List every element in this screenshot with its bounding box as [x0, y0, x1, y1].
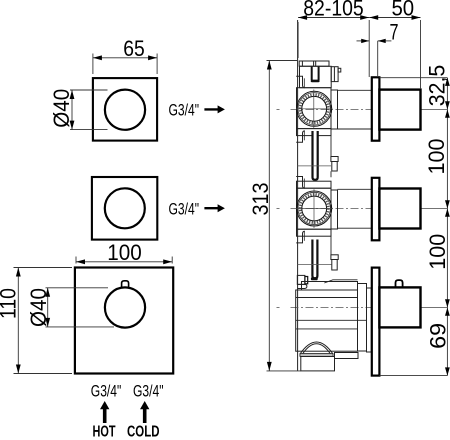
dim Ø40 extension line top: [70, 89, 108, 91]
right fitting below unit2: [331, 255, 338, 260]
mid fitting centerline: [298, 165, 331, 167]
right vertical dimension line: [446, 78, 448, 376]
sleeve lines unit2 to plate: [338, 188, 372, 190]
right dim extension plate3 bottom: [379, 375, 447, 377]
big wall plate square S3 (bottom-left front view): [75, 268, 173, 374]
right fitting mid: [331, 157, 338, 162]
dimension 110 extension top: [14, 267, 73, 269]
dimension 100 extension lines: [75, 257, 77, 264]
svg-text:32,5: 32,5: [424, 65, 449, 107]
svg-text:69: 69: [426, 323, 450, 349]
thermostat top bar bevel: [324, 280, 357, 283]
thermostat bottom outlet box: [301, 357, 335, 371]
knob barrel B3: [379, 287, 420, 327]
dim 313 extension bottom: [267, 370, 302, 372]
dimension 65 extension line left: [92, 54, 94, 75]
svg-text:100: 100: [425, 234, 450, 270]
escutcheon plate P2: [372, 178, 380, 241]
dimension 110 extension bottom: [14, 373, 73, 375]
wall line: [297, 20, 299, 371]
svg-text:100: 100: [424, 139, 449, 175]
right dim extension plate1 top: [379, 77, 447, 79]
gasket band: [300, 354, 333, 357]
svg-text:Ø40: Ø40: [26, 288, 51, 327]
bracket line above mid fitting: [330, 136, 332, 157]
dim 313 extension top: [267, 60, 298, 62]
dim 7 extension right: [377, 41, 379, 77]
centerline valve 1: [291, 109, 421, 111]
svg-text:G3/4": G3/4": [133, 383, 164, 401]
svg-text:110: 110: [0, 288, 20, 319]
svg-text:313: 313: [248, 183, 273, 216]
dim 82-105 extension left (wall): [297, 22, 299, 58]
centerline valve 3: [291, 307, 421, 309]
svg-text:HOT: HOT: [93, 424, 116, 440]
thermostat internal top line: [296, 297, 358, 299]
dimension line 65: [93, 57, 157, 59]
thermostat top bar: [302, 282, 358, 291]
thermostat bottom right tab: [335, 353, 359, 359]
thermostat left inlet fitting: [297, 275, 305, 284]
dimension 65 extension line right: [156, 54, 158, 75]
safety button on barrel B3: [396, 280, 403, 287]
arrow up COLD: [140, 401, 149, 423]
bracket line above lower fitting: [330, 236, 332, 255]
dimension line 110: [17, 268, 19, 374]
inlet fitting cap: [305, 277, 308, 284]
centerline left tail row2: [277, 208, 280, 210]
knob circle of S2: [105, 188, 145, 228]
flange ear top unit1: [296, 76, 305, 87]
thermostat right step 2: [367, 288, 372, 352]
flange ear top unit2: [296, 177, 305, 189]
dimension line 50: [369, 17, 420, 19]
arrow right row1: [204, 105, 225, 113]
top flange band unit2: [297, 181, 332, 188]
thermostat internal line 1: [296, 319, 367, 321]
bottom flange band unit2: [297, 229, 332, 236]
dimension line Ø40 bottom: [47, 288, 49, 327]
centerline left tail row1: [277, 109, 280, 111]
svg-text:7: 7: [390, 20, 399, 45]
centerline valve 2: [291, 208, 421, 210]
svg-text:82-105: 82-105: [303, 0, 364, 20]
thermostat knob circle of S3: [105, 287, 145, 327]
valve 2 cartridge circles: [297, 191, 332, 226]
upper body block: [300, 66, 341, 87]
valve 1 horizontal crosshair: [296, 108, 333, 110]
safety button tab on S3 knob: [122, 281, 129, 289]
centerline left tail row3: [277, 307, 280, 309]
svg-text:65: 65: [123, 36, 145, 61]
valve unit 2 body box: [297, 188, 338, 229]
dimension line Ø40 vertical: [71, 90, 73, 130]
svg-text:Ø40: Ø40: [49, 89, 74, 128]
thermostat internal line 2: [296, 328, 358, 330]
svg-text:50: 50: [391, 0, 414, 20]
flange ear bottom unit2: [296, 231, 305, 243]
connecting pipe unit2-unit3: [312, 239, 317, 278]
dim boundary extension x=369.2: [368, 20, 370, 77]
thermostat main housing: [296, 290, 358, 351]
thermostat bottom dome: [300, 342, 333, 356]
dimension line 82-105: [298, 17, 369, 19]
valve 1 vertical crosshair: [313, 90, 315, 129]
svg-text:G3/4": G3/4": [169, 102, 200, 120]
top mounting cap: [299, 61, 329, 66]
svg-text:G3/4": G3/4": [169, 201, 200, 219]
flange ear bottom unit1: [296, 131, 305, 142]
arrow up HOT: [100, 401, 109, 423]
sleeve lines unit1 to plate: [338, 89, 372, 91]
dimension line 100: [76, 261, 172, 263]
valve 2 vertical crosshair: [313, 189, 315, 228]
svg-text:G3/4": G3/4": [91, 383, 122, 401]
connecting pipe unit1-unit2: [313, 131, 318, 180]
knob circle of S1: [105, 90, 145, 130]
pipe2 dark end: [311, 277, 318, 280]
knob barrel B2: [379, 189, 420, 229]
wall plate square S2 (middle-left front view): [92, 177, 157, 240]
socket dark bottom: [311, 80, 320, 83]
knob barrel B1: [379, 90, 420, 130]
inlet fitting lip: [297, 284, 307, 288]
wall plate square S1 (top-left front view): [93, 78, 157, 141]
dim Ø40 extension line bottom: [70, 129, 108, 131]
svg-text:100: 100: [107, 240, 142, 265]
dim Ø40 bottom extension bottom: [46, 326, 115, 328]
dimension line 7 with outside arrows: [357, 40, 370, 42]
valve 2 horizontal crosshair: [296, 208, 333, 210]
escutcheon plate P1: [372, 77, 380, 140]
valve 1 cartridge circles: [297, 91, 332, 126]
valve unit 1 body box: [297, 88, 338, 129]
escutcheon plate P3: [372, 268, 380, 376]
dim 50 right extension: [420, 20, 422, 89]
lower fitting centerline: [298, 264, 332, 266]
dim Ø40 bottom extension top: [46, 287, 109, 289]
dimension line 313: [268, 61, 270, 371]
arrow right row2: [204, 204, 225, 212]
thermostat right step 1: [358, 284, 367, 352]
top inlet socket: [312, 66, 319, 80]
bottom flange band unit1: [297, 129, 332, 136]
svg-text:COLD: COLD: [127, 424, 160, 440]
bracket line below mid fitting: [330, 171, 332, 177]
